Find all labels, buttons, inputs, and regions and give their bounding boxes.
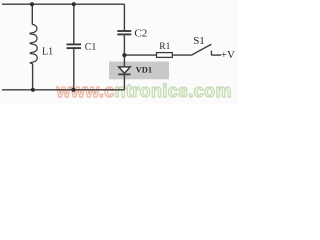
svg-text:+V: +V xyxy=(221,49,235,61)
svg-text:VD1: VD1 xyxy=(136,64,153,74)
svg-text:L1: L1 xyxy=(42,47,53,58)
svg-text:C1: C1 xyxy=(85,42,97,53)
svg-text:C2: C2 xyxy=(134,28,147,40)
svg-text:R1: R1 xyxy=(159,42,170,52)
svg-text:S1: S1 xyxy=(193,35,205,47)
